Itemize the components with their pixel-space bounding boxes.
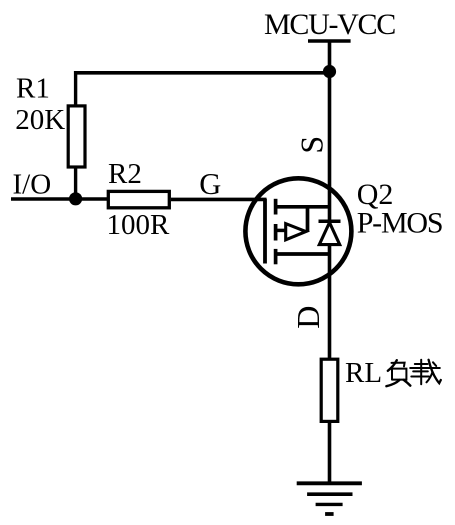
value hanzi 载 (load char 2) [410, 360, 441, 384]
resistor R2 [108, 191, 169, 207]
body diode open triangle pointing up [319, 223, 339, 245]
arrow open triangle pointing right [286, 224, 306, 240]
svg-text:100R: 100R [107, 209, 171, 241]
svg-text:R2: R2 [108, 158, 142, 190]
arrow lead from middle dash [276, 229, 287, 233]
svg-text:D: D [290, 306, 326, 329]
transistor Q2 P-MOSFET [245, 178, 351, 284]
svg-text:RL: RL [345, 357, 382, 389]
body circle [245, 178, 351, 284]
resistor RL [321, 359, 338, 421]
value hanzi 负 (load char 1) [386, 360, 410, 386]
junction dot at VCC node [323, 65, 336, 78]
wire top horizontal (junction to R1) [74, 71, 330, 75]
resistor R1 [68, 71, 85, 199]
svg-text:P-MOS: P-MOS [357, 207, 443, 240]
svg-text:G: G [199, 167, 221, 201]
svg-text:R1: R1 [16, 72, 50, 104]
drain connection line [276, 252, 330, 256]
wire main vertical (VCC bar to RL top) [328, 41, 332, 359]
svg-text:S: S [293, 136, 329, 154]
svg-text:20K: 20K [15, 104, 65, 136]
svg-text:MCU-VCC: MCU-VCC [264, 8, 395, 41]
ground symbol [297, 483, 362, 514]
wire I/O input [11, 197, 107, 201]
channel dash top [274, 199, 278, 215]
gate bar [263, 199, 267, 264]
source connection line [276, 205, 330, 209]
power symbol MCU-VCC bar [308, 39, 351, 43]
junction dot at gate divider node [69, 192, 82, 205]
wire RL to ground [328, 421, 332, 484]
channel dash middle [274, 224, 278, 241]
body diode cathode bar [319, 219, 341, 223]
source stub vertical [306, 207, 310, 232]
svg-text:I/O: I/O [13, 169, 52, 201]
wire R2 to gate [171, 198, 267, 202]
channel dash bottom [274, 249, 278, 264]
